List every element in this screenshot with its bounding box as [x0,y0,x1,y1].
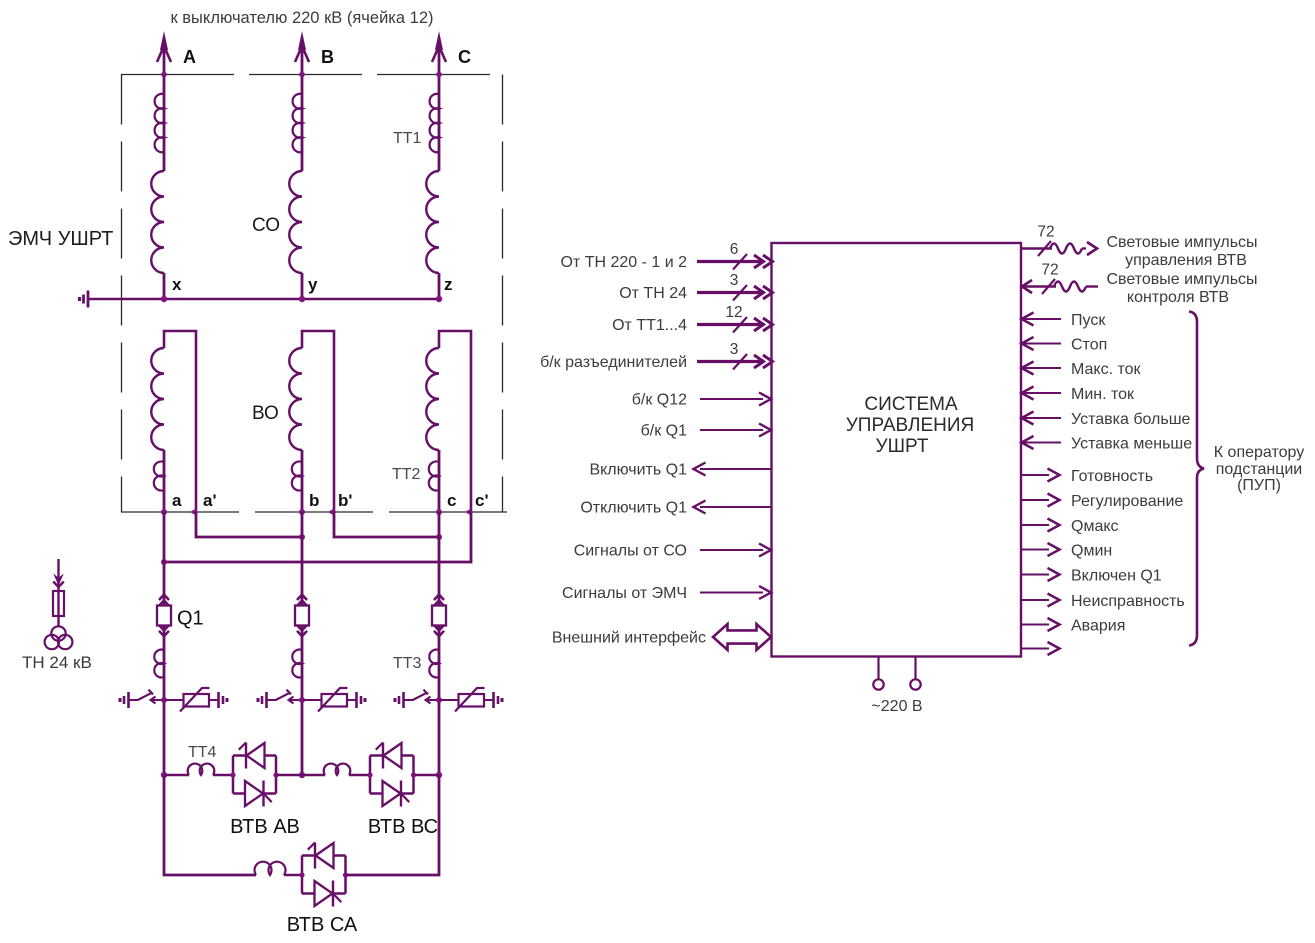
valve BTB CA lower thyristor [332,881,334,907]
input От ТН 24 (3) [697,291,763,294]
ground symbol left [87,291,90,308]
svg-text:3: 3 [730,341,739,358]
input От ТТ1...4 (12) [697,323,763,326]
wire phase c down [438,512,441,775]
node c [436,509,442,515]
valve BTB BC lower thyristor [400,781,402,807]
disconnector blade phase c [413,693,426,700]
disconnector arrow phase b [289,697,294,704]
svg-text:x: x [172,275,182,294]
svg-text:Qмин: Qмин [1071,543,1112,560]
winding BO phase c [426,348,439,450]
valve BTB AB terminals [230,772,235,777]
svg-text:Q1: Q1 [177,608,204,630]
svg-text:b': b' [338,491,352,510]
svg-text:к выключателю 220 кВ (ячейка 1: к выключателю 220 кВ (ячейка 12) [170,9,433,27]
input б/к Q12 [700,398,763,400]
wire star bus x-y-z to ground [87,298,439,301]
node b [299,509,305,515]
current transformer TT2 winding phase c [429,462,439,491]
status Готовность [1021,474,1049,476]
output Включить Q1 [700,468,771,470]
wire arrester to earth c [484,699,494,701]
wire BO c lower [438,450,441,512]
breaker Q1 phase b body [295,606,309,626]
output Отключить Q1 [700,506,771,508]
svg-text:ВТВ АВ: ВТВ АВ [230,816,300,838]
input Сигналы от СО [700,549,763,551]
command Уставка меньше [1022,436,1034,449]
wire BO top loop b [302,331,334,512]
wire arrester to earth a [209,699,219,701]
svg-text:ВО: ВО [252,403,279,424]
svg-text:СИСТЕМА: СИСТЕМА [864,394,958,415]
svg-text:Неисправность: Неисправность [1071,593,1185,610]
valve BTB BC upper thyristor [382,743,384,769]
input От ТН 220 - 1 и 2 (6) [697,260,763,263]
svg-text:Световые импульсы: Световые импульсы [1106,271,1257,288]
svg-text:Сигналы от СО: Сигналы от СО [574,543,687,560]
svg-text:Готовность: Готовность [1071,468,1153,485]
svg-text:От ТН 24: От ТН 24 [619,285,687,302]
disconnector arrow phase a [151,697,156,704]
svg-text:C: C [458,47,471,67]
svg-text:ТТ3: ТТ3 [393,655,422,672]
node phase c at valve bus [436,772,442,778]
wire link b' to c [334,512,439,537]
phase B arrow up [298,31,306,50]
svg-text:ТТ2: ТТ2 [392,466,421,483]
surge arrester phase b [322,694,348,707]
svg-text:Макс. ток: Макс. ток [1071,361,1142,378]
svg-text:ТТ1: ТТ1 [393,130,422,147]
svg-text:72: 72 [1041,262,1058,279]
power supply terminals [877,657,879,680]
wire valve BC to phase c [414,774,440,776]
node c' marker [465,508,472,516]
bidirectional Внешний интерфейс [713,624,771,650]
input light pulses monitoring VTV (72) [1022,280,1032,293]
command Пуск [1022,313,1034,326]
disconnector blade phase b [276,693,289,700]
node phase a at valve bus [161,772,167,778]
svg-text:ВТВ СА: ВТВ СА [287,914,358,936]
current transformer TT2 winding phase b [292,462,302,491]
wire phase C to star point [438,273,441,299]
earth symbol right phase a [217,692,220,708]
disconnector blade phase a [138,693,151,700]
valve BTB CA upper thyristor [314,843,316,869]
valve BTB AB frame [233,756,276,794]
status Qмин [1021,549,1049,551]
svg-text:Включен Q1: Включен Q1 [1071,568,1162,585]
svg-text:управления ВТВ: управления ВТВ [1125,252,1247,269]
voltage transformer TN 24 windings [51,626,65,640]
wire arrester to earth b [347,699,357,701]
wire BO b lower [301,450,304,512]
wire phase a down [163,512,166,775]
svg-text:Включить Q1: Включить Q1 [589,462,687,479]
svg-text:Внешний интерфейс: Внешний интерфейс [552,630,706,647]
wire phase A top [163,44,166,171]
node link a'-b at phase B [299,534,305,540]
node link c'-a at phase A [161,559,167,565]
status Включен Q1 [1021,574,1049,576]
status spare output [1021,648,1049,650]
current transformer TT3 winding phase c [429,650,439,678]
node a' marker [190,508,197,516]
command Стоп [1022,337,1034,350]
svg-text:6: 6 [730,241,739,258]
status Регулирование [1021,499,1049,501]
svg-text:c': c' [475,491,489,510]
valve BTB BC terminals [367,772,372,777]
disconnector arrow phase c [426,697,431,704]
node arrester tap b [299,697,305,703]
wire node to arrester a [164,699,184,701]
node z [436,296,442,302]
node x [161,296,167,302]
node phase A on dashed boundary [161,72,167,78]
svg-text:(ПУП): (ПУП) [1237,477,1281,494]
svg-text:подстанции: подстанции [1216,461,1302,478]
current transformer winding B-C [302,774,325,776]
svg-text:12: 12 [725,304,742,321]
current transformer TT3 winding phase a [154,650,164,678]
earth symbol right phase c [492,692,495,708]
breaker Q1 phase c body [432,606,446,626]
control system box [772,243,1022,657]
phase C arrow up [435,31,443,50]
status Авария [1021,624,1049,626]
node b' marker [328,508,335,516]
wire CA valve to phase c [346,775,440,875]
wire phase a to CA valve [164,775,256,875]
breaker Q1 phase a body [157,606,171,626]
valve BTB AB lower thyristor [262,781,264,807]
node a [161,509,167,515]
wire phase b down [301,512,304,775]
reactor winding CO phase C [426,171,439,273]
command Уставка больше [1022,412,1034,425]
wire earth to disconnector c [404,699,414,701]
wire disconnector to node a [151,699,164,701]
svg-text:ВТВ ВС: ВТВ ВС [368,816,438,838]
node arrester tap c [436,697,442,703]
svg-text:Световые импульсы: Световые импульсы [1106,234,1257,251]
svg-text:B: B [321,47,334,67]
reactor winding CO phase B [289,171,302,273]
command Макс. ток [1022,362,1034,375]
node phase B on dashed boundary [299,72,305,78]
svg-text:Сигналы от ЭМЧ: Сигналы от ЭМЧ [562,585,687,602]
svg-text:Пуск: Пуск [1071,312,1106,329]
valve BTB CA frame [302,856,346,894]
svg-text:контроля ВТВ: контроля ВТВ [1127,289,1229,306]
svg-text:Мин. ток: Мин. ток [1071,386,1135,403]
wire link a' to b [196,512,302,537]
svg-text:УПРАВЛЕНИЯ: УПРАВЛЕНИЯ [846,415,975,436]
svg-text:a: a [172,491,182,510]
svg-text:Уставка меньше: Уставка меньше [1071,436,1192,453]
input б/к Q1 [700,429,763,431]
current transformer TT4 winding A-B [164,774,189,776]
TN 24 arrow down [53,574,64,586]
dashed enclosure bottom edge [121,511,510,513]
dashed enclosure left edge [121,75,123,513]
wire phase B to star point [301,273,304,299]
breaker Q1 phase b racking arrows up [297,595,307,601]
svg-text:От ТТ1...4: От ТТ1...4 [612,317,687,334]
svg-text:Авария: Авария [1071,618,1125,635]
wire link c' to a [164,512,471,562]
wire BO top loop a [164,331,196,512]
svg-text:От ТН 220 - 1 и 2: От ТН 220 - 1 и 2 [560,254,687,271]
wire disconnector to node c [426,699,439,701]
svg-text:~220 В: ~220 В [871,698,922,715]
dashed enclosure right edge [502,75,504,513]
breaker Q1 phase b racking arrows down [297,625,307,631]
node arrester tap a [161,697,167,703]
winding BO phase a [151,348,164,450]
wire phase B top [301,44,304,171]
svg-text:ТН 24 кВ: ТН 24 кВ [22,653,92,672]
earth symbol right phase b [355,692,358,708]
svg-text:б/к Q1: б/к Q1 [641,423,688,440]
current transformer TT2 winding phase a [154,462,164,491]
wire BO top loop c [439,331,471,512]
fuse TN 24 [53,591,64,616]
svg-text:б/к разъединителей: б/к разъединителей [540,354,687,371]
valve BTB CA terminals [299,872,304,877]
breaker Q1 phase c racking arrows up [434,595,444,601]
node phase C on dashed boundary [436,72,442,78]
wire earth to disconnector b [267,699,277,701]
phase A arrow up [160,31,168,50]
current transformer winding C-A [255,862,286,875]
node phase b at valve bus [299,772,305,778]
input Сигналы от ЭМЧ [700,592,763,594]
brace to substation operator [1189,312,1204,646]
earth symbol left phase b [265,692,268,708]
svg-text:A: A [183,47,196,67]
valve BTB BC frame [370,756,414,794]
wire TN 24 stem [57,559,59,627]
current transformer TT1 winding phase A [155,94,164,152]
svg-text:б/к Q12: б/к Q12 [632,392,687,409]
svg-text:К оператору: К оператору [1214,444,1304,461]
svg-text:Стоп: Стоп [1071,337,1107,354]
svg-text:a': a' [203,491,217,510]
current transformer TT3 winding phase b [292,650,302,678]
status Qмакс [1021,524,1049,526]
dashed enclosure top edge [121,74,503,76]
svg-text:Уставка больше: Уставка больше [1071,411,1191,428]
winding BO phase b [289,348,302,450]
wire node to arrester b [302,699,322,701]
wire valve AB to phase b [276,774,302,776]
svg-text:72: 72 [1037,224,1054,241]
output light pulses control VTV (72) [1021,247,1052,250]
node link b'-c at phase C [436,534,442,540]
wire phase A to star point [163,273,166,299]
command Мин. ток [1022,387,1034,400]
svg-text:y: y [308,275,318,294]
svg-text:Отключить Q1: Отключить Q1 [580,500,687,517]
wire BO a lower [163,450,166,512]
svg-text:c: c [447,491,456,510]
wire earth to disconnector a [129,699,139,701]
wire phase C top [438,44,441,171]
reactor winding CO phase A [151,171,164,273]
wire node to arrester c [439,699,459,701]
valve BTB AB upper thyristor [245,743,247,769]
input б/к разъединителей (3) [697,360,763,363]
svg-text:ТТ4: ТТ4 [188,744,217,761]
earth symbol left phase c [402,692,405,708]
surge arrester phase c [459,694,485,707]
breaker Q1 phase c racking arrows down [434,625,444,631]
breaker Q1 phase a racking arrows up [159,595,169,601]
status Неисправность [1021,599,1049,601]
svg-text:УШРТ: УШРТ [876,436,929,457]
svg-text:Регулирование: Регулирование [1071,493,1183,510]
surge arrester phase a [184,694,210,707]
svg-text:b: b [309,491,319,510]
current transformer TT1 winding phase C [430,94,439,152]
svg-text:ЭМЧ УШРТ: ЭМЧ УШРТ [8,228,113,250]
svg-text:3: 3 [730,272,739,289]
svg-text:СО: СО [252,215,280,236]
wire disconnector to node b [289,699,302,701]
earth symbol left phase a [127,692,130,708]
svg-text:Qмакс: Qмакс [1071,518,1119,535]
svg-text:z: z [444,275,453,294]
current transformer TT1 winding phase B [293,94,302,152]
breaker Q1 phase a racking arrows down [159,625,169,631]
node y [299,296,305,302]
